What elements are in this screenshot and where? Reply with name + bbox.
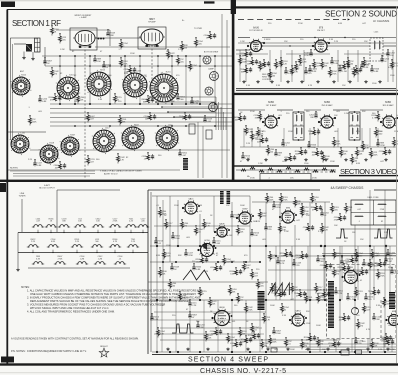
svg-text:6.8K: 6.8K xyxy=(374,71,379,73)
svg-text:DEFL YOKE: DEFL YOKE xyxy=(367,197,379,199)
svg-text:2.2K: 2.2K xyxy=(324,229,329,231)
svg-text:120K: 120K xyxy=(166,245,171,247)
svg-text:6SN7: 6SN7 xyxy=(242,209,248,211)
svg-text:2.2K: 2.2K xyxy=(334,41,339,43)
svg-text:.1: .1 xyxy=(358,221,360,223)
svg-text:2.2K: 2.2K xyxy=(31,241,36,243)
svg-text:270K: 270K xyxy=(188,255,193,257)
svg-text:270K: 270K xyxy=(230,261,235,263)
svg-text:3.3K: 3.3K xyxy=(98,99,103,101)
svg-text:270K: 270K xyxy=(296,257,301,259)
svg-text:270K: 270K xyxy=(123,63,128,65)
svg-text:2.2K: 2.2K xyxy=(192,305,197,307)
svg-text:6.8K: 6.8K xyxy=(338,23,343,25)
svg-text:6.8K: 6.8K xyxy=(388,67,393,69)
svg-text:2.2K: 2.2K xyxy=(283,63,288,65)
svg-text:120K: 120K xyxy=(294,289,299,291)
svg-text:4.7K: 4.7K xyxy=(294,71,299,73)
svg-text:270K: 270K xyxy=(304,55,309,57)
svg-text:100K: 100K xyxy=(295,153,300,155)
svg-text:4.7K: 4.7K xyxy=(394,65,398,67)
svg-text:270K: 270K xyxy=(250,111,255,113)
svg-text:1. ALL CAPACITANCE VALUES IN M: 1. ALL CAPACITANCE VALUES IN MMF AND ALL… xyxy=(27,289,202,293)
svg-text:270K: 270K xyxy=(276,207,281,209)
svg-text:270K: 270K xyxy=(334,219,339,221)
svg-text:BLOCK OUTPUT: BLOCK OUTPUT xyxy=(39,188,55,190)
svg-text:6BQ6: 6BQ6 xyxy=(219,307,225,309)
svg-text:6.8K: 6.8K xyxy=(356,163,361,165)
svg-text:120K: 120K xyxy=(330,161,335,163)
svg-text:3.3K: 3.3K xyxy=(194,103,199,105)
svg-text:4.7K: 4.7K xyxy=(280,263,285,265)
svg-text:.047: .047 xyxy=(296,220,300,222)
svg-text:100K: 100K xyxy=(270,305,275,307)
svg-text:3.3K: 3.3K xyxy=(230,273,235,275)
svg-text:2. IN EARLY PRODUCTION CHASSIS: 2. IN EARLY PRODUCTION CHASSIS A FEW COM… xyxy=(27,296,200,300)
svg-text:6AU6: 6AU6 xyxy=(219,223,225,226)
svg-text:4.7K: 4.7K xyxy=(308,85,313,87)
svg-text:3. VOLTAGES MEASURED FROM SOCK: 3. VOLTAGES MEASURED FROM SOCKET PINS TO… xyxy=(27,303,165,307)
svg-text:1.2M: 1.2M xyxy=(342,71,347,73)
svg-text:2.2K: 2.2K xyxy=(129,221,134,223)
svg-text:3.3K: 3.3K xyxy=(318,231,323,233)
svg-text:120K: 120K xyxy=(174,205,179,207)
svg-text:270K: 270K xyxy=(380,275,385,277)
svg-text:3.3K: 3.3K xyxy=(36,258,41,260)
svg-text:6AX4: 6AX4 xyxy=(295,310,301,313)
svg-text:2.2K: 2.2K xyxy=(28,159,33,161)
svg-text:270K: 270K xyxy=(336,143,341,145)
svg-text:NOTES:: NOTES: xyxy=(10,168,19,170)
svg-text:1.2M: 1.2M xyxy=(240,41,245,43)
svg-text:SECTION 1 RF: SECTION 1 RF xyxy=(12,19,61,28)
svg-text:100K: 100K xyxy=(290,349,295,351)
svg-text:270K: 270K xyxy=(332,73,337,75)
svg-text:SECTION 3 VIDEO: SECTION 3 VIDEO xyxy=(340,167,397,176)
svg-text:270K: 270K xyxy=(298,23,303,25)
svg-text:1.2M: 1.2M xyxy=(258,163,263,165)
svg-text:100K: 100K xyxy=(234,217,239,219)
svg-text:2.2K: 2.2K xyxy=(338,293,343,295)
svg-text:2.2K: 2.2K xyxy=(256,221,261,223)
svg-text:120K: 120K xyxy=(130,53,135,55)
svg-text:4.7K: 4.7K xyxy=(204,271,209,273)
svg-text:RF AMP: RF AMP xyxy=(148,20,156,23)
svg-text:BRIGHT: BRIGHT xyxy=(100,346,108,348)
svg-text:120K: 120K xyxy=(166,255,171,257)
svg-text:6.8K: 6.8K xyxy=(51,241,56,243)
svg-text:270K: 270K xyxy=(58,258,63,260)
svg-text:.01: .01 xyxy=(360,280,363,282)
svg-text:1.2M: 1.2M xyxy=(344,113,349,115)
svg-text:3.3K: 3.3K xyxy=(312,71,317,73)
svg-text:4.7K: 4.7K xyxy=(120,159,125,161)
svg-text:1.2M: 1.2M xyxy=(80,258,85,260)
svg-text:270K: 270K xyxy=(248,309,253,311)
svg-text:ONE HALF WATT CARBON UNLESS OT: ONE HALF WATT CARBON UNLESS OTHERWISE NO… xyxy=(30,292,197,296)
svg-text:2.2K: 2.2K xyxy=(131,241,136,243)
svg-text:1.2M: 1.2M xyxy=(60,49,65,51)
svg-text:3.3K: 3.3K xyxy=(246,85,251,87)
svg-text:3.3K: 3.3K xyxy=(365,147,370,149)
svg-text:4.7K: 4.7K xyxy=(366,329,371,331)
svg-text:270K: 270K xyxy=(250,178,255,180)
svg-text:2.2K: 2.2K xyxy=(124,71,129,73)
svg-text:120K: 120K xyxy=(306,323,311,325)
svg-text:6CD6: 6CD6 xyxy=(204,240,210,242)
svg-text:I-F CHASSIS: I-F CHASSIS xyxy=(373,19,390,23)
svg-text:6.8K: 6.8K xyxy=(37,165,42,167)
svg-text:P.N. NOTES : CONDITIONS REQUIR: P.N. NOTES : CONDITIONS REQUIRED FOR SUP… xyxy=(11,350,87,353)
svg-text:120K: 120K xyxy=(272,341,277,343)
svg-text:6.8K: 6.8K xyxy=(156,255,161,257)
svg-text:4A SWEEP CHASSIS: 4A SWEEP CHASSIS xyxy=(331,186,365,190)
svg-text:CHASSIS NO. V-2217-5: CHASSIS NO. V-2217-5 xyxy=(200,368,286,375)
svg-text:100K: 100K xyxy=(269,199,274,201)
svg-text:3.3K: 3.3K xyxy=(376,305,381,307)
svg-text:BOTTOM VIEW: BOTTOM VIEW xyxy=(204,52,218,54)
svg-text:1.2M: 1.2M xyxy=(302,61,307,63)
svg-text:3.3K: 3.3K xyxy=(276,85,281,87)
svg-text:1ST SOUND IF: 1ST SOUND IF xyxy=(249,30,264,32)
svg-text:270K: 270K xyxy=(113,221,118,223)
svg-text:6.8K: 6.8K xyxy=(182,297,187,299)
svg-text:3RD IF AMP: 3RD IF AMP xyxy=(382,104,394,107)
svg-text:6AL5: 6AL5 xyxy=(189,198,195,201)
svg-text:3.3K: 3.3K xyxy=(282,315,287,317)
svg-text:270K: 270K xyxy=(278,65,283,67)
svg-text:100K: 100K xyxy=(32,121,37,123)
svg-text:120K: 120K xyxy=(288,131,293,133)
svg-text:3.3K: 3.3K xyxy=(296,239,301,241)
svg-text:+ 4 AMP: + 4 AMP xyxy=(79,16,87,19)
svg-text:4.7K: 4.7K xyxy=(113,241,118,243)
svg-text:6AU6: 6AU6 xyxy=(253,27,259,30)
svg-text:100K: 100K xyxy=(240,205,245,207)
svg-text:FM DET: FM DET xyxy=(317,30,325,32)
svg-text:X IN/ALL OF ALL CAPACITORS IN: X IN/ALL OF ALL CAPACITORS IN RF TUNER xyxy=(100,170,142,173)
svg-text:1.2M: 1.2M xyxy=(98,258,103,260)
svg-text:SECTION 2 SOUND: SECTION 2 SOUND xyxy=(325,10,397,19)
svg-text:4.7K: 4.7K xyxy=(338,67,343,69)
svg-text:CONTROL: CONTROL xyxy=(262,79,273,81)
svg-text:4. ALL COIL AND TRANSFORMER DC: 4. ALL COIL AND TRANSFORMER DC RESISTANC… xyxy=(27,310,115,314)
svg-text:1.2M: 1.2M xyxy=(142,75,147,77)
svg-text:REPLACEMENT PARTS SHOULD BE OF: REPLACEMENT PARTS SHOULD BE OF THE VALUE… xyxy=(30,299,191,303)
svg-text:1.2M: 1.2M xyxy=(178,49,183,51)
svg-text:6.8K: 6.8K xyxy=(196,269,201,271)
svg-text:82: 82 xyxy=(381,221,383,223)
svg-text:6.8K: 6.8K xyxy=(42,101,47,103)
svg-text:SECTION 4 SWEEP: SECTION 4 SWEEP xyxy=(188,356,268,363)
svg-text:2.2K: 2.2K xyxy=(246,143,251,145)
svg-text:ALERT IS 50 V.: ALERT IS 50 V. xyxy=(104,173,118,176)
svg-text:270K: 270K xyxy=(346,261,351,263)
svg-text:1.2M: 1.2M xyxy=(318,295,323,297)
svg-text:000: 000 xyxy=(221,318,224,320)
svg-text:6.8K: 6.8K xyxy=(318,289,323,291)
svg-text:6.8K: 6.8K xyxy=(198,205,203,207)
svg-text:LAMP: LAMP xyxy=(208,68,214,71)
svg-text:4.7K: 4.7K xyxy=(206,225,211,227)
svg-text:TUNER: TUNER xyxy=(19,196,26,198)
svg-text:1.2M: 1.2M xyxy=(284,231,289,233)
svg-text:270K: 270K xyxy=(283,199,288,201)
svg-text:270K: 270K xyxy=(312,178,317,180)
svg-text:4.7K: 4.7K xyxy=(372,117,377,119)
svg-text:.047: .047 xyxy=(357,209,361,211)
svg-text:120K: 120K xyxy=(311,147,316,149)
svg-text:100K: 100K xyxy=(373,154,378,156)
svg-text:270K: 270K xyxy=(380,145,385,147)
svg-text:1ST IF AMP: 1ST IF AMP xyxy=(266,104,277,107)
svg-text:6.8K: 6.8K xyxy=(240,55,245,57)
svg-text:3.3K: 3.3K xyxy=(364,67,369,69)
svg-text:.01: .01 xyxy=(199,211,202,213)
svg-text:6.8K: 6.8K xyxy=(288,73,293,75)
svg-text:4.7K: 4.7K xyxy=(266,319,271,321)
svg-text:270K: 270K xyxy=(380,209,385,211)
svg-text:A VOLTAGE READINGS TAKEN WITH: A VOLTAGE READINGS TAKEN WITH CONTRAST C… xyxy=(11,338,139,341)
svg-text:100K: 100K xyxy=(316,325,321,327)
svg-text:TO PWR: TO PWR xyxy=(194,28,203,30)
svg-text:120K: 120K xyxy=(388,267,393,269)
svg-text:2ND IF AMP: 2ND IF AMP xyxy=(321,104,333,107)
svg-text:WITH NO SIGNAL INPUT AND LINE: WITH NO SIGNAL INPUT AND LINE VOLTAGE HE… xyxy=(30,306,109,310)
svg-text:2.2K: 2.2K xyxy=(75,241,80,243)
